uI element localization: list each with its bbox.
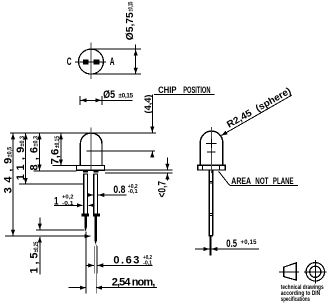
AREA NOT PLANE leader <box>219 171 230 185</box>
side view lead bottom cap <box>209 235 214 237</box>
front view vertical centerline <box>90 128 92 171</box>
svg-text:Ø5,75: Ø5,75 <box>124 12 136 40</box>
svg-text:±0,25: ±0,25 <box>33 241 40 252</box>
top view circle (lens top view) <box>79 49 104 74</box>
dim 1,5 lower arrow <box>39 237 41 274</box>
svg-text:C: C <box>67 56 72 68</box>
left lead crimp bulge <box>82 213 90 216</box>
dim 7,6 bottom extension line <box>52 165 76 167</box>
dim 34,9 dimension line <box>12 134 14 141</box>
lead cross-section square right (anode) <box>94 59 100 64</box>
extension line from left lead tip <box>85 232 87 294</box>
projection symbol crosshair <box>304 271 327 273</box>
top view vertical centerline <box>90 43 92 79</box>
projection symbol cone <box>284 263 297 280</box>
extension line from right lead center <box>95 245 97 294</box>
svg-text:±0,15: ±0,15 <box>128 1 134 11</box>
dim 0,8 leader and dimension line <box>88 194 93 196</box>
svg-text:R2,45: R2,45 <box>225 107 255 130</box>
svg-text:specifications: specifications <box>281 296 310 303</box>
svg-text:1,5: 1,5 <box>29 253 41 274</box>
svg-text:-0,1: -0,1 <box>143 261 153 267</box>
polarity minus mark <box>207 151 215 153</box>
dim 0,5 dimension line with arrows <box>195 248 209 250</box>
svg-text:Ø5: Ø5 <box>103 89 115 101</box>
dim Ø5 extension line right <box>101 96 103 105</box>
R2,45 label <box>225 86 293 131</box>
dim Ø5 dimension line with arrows <box>81 99 102 101</box>
svg-text:-0,1: -0,1 <box>62 201 74 207</box>
left lead narrow section with pointed tip <box>84 217 86 228</box>
lead cross-section square left (cathode) <box>83 59 88 64</box>
dim <0,7 extension lines <box>105 169 172 171</box>
right lead narrow section with pointed tip <box>94 217 96 241</box>
extension lines from right lead edges <box>93 246 95 274</box>
svg-text:POSITION: POSITION <box>183 85 210 95</box>
svg-text:±0,15: ±0,15 <box>54 136 61 148</box>
svg-text:-0,1: -0,1 <box>128 189 139 195</box>
side view flange <box>198 165 226 170</box>
svg-text:(sphere): (sphere) <box>254 86 293 115</box>
svg-text:±0,5: ±0,5 <box>7 147 14 158</box>
dim 0.63 dimension line <box>86 264 94 266</box>
right lead outline (anode) <box>93 170 98 172</box>
svg-text:PLANE: PLANE <box>273 176 294 186</box>
svg-text:2,54 nom,: 2,54 nom, <box>112 277 156 289</box>
svg-text:±0,3: ±0,3 <box>33 136 40 147</box>
dim 8,6 bottom extension line <box>34 170 77 172</box>
anode tip reference line B <box>5 235 91 237</box>
dim 8,6 dimension line <box>39 134 41 141</box>
side view lead tick marks <box>208 180 213 182</box>
dim Ø5,75 extension line top <box>91 48 141 50</box>
R2,45 leader arrow <box>222 95 293 135</box>
dim 7,6 dimension line <box>60 134 62 141</box>
svg-text:(4,4): (4,4) <box>143 95 154 114</box>
dim 11,9 dimension line <box>25 134 27 141</box>
dim 11,9 bottom extension line <box>19 183 83 185</box>
side view vertical centerline <box>211 127 213 173</box>
svg-text:0.8: 0.8 <box>113 184 125 196</box>
svg-text:±0,15: ±0,15 <box>118 92 133 99</box>
svg-text:7,6: 7,6 <box>50 149 62 165</box>
svg-text:0.5: 0.5 <box>226 238 237 250</box>
dim Ø5,75 extension line bottom <box>91 73 141 75</box>
dim <0,7 arrows <box>166 158 168 170</box>
dim 1 leader and dimension line <box>54 204 78 206</box>
svg-text:±0,3: ±0,3 <box>19 136 26 147</box>
polarity plus mark <box>206 142 217 144</box>
side view lead outline <box>208 170 210 236</box>
dim Ø5,75 dimension line with arrows <box>135 50 137 74</box>
svg-text:0.63: 0.63 <box>113 255 139 267</box>
right lead crimp bulge <box>93 213 100 216</box>
svg-text:1: 1 <box>54 196 59 208</box>
svg-text:<0,7: <0,7 <box>157 181 169 198</box>
projection symbol cone centerline <box>279 271 299 273</box>
svg-text:A: A <box>110 56 115 68</box>
front view flange <box>77 165 105 170</box>
left lead outline (cathode) <box>83 170 88 172</box>
dim 1,5 upper arrow <box>39 217 41 229</box>
cathode tip reference line A <box>36 229 85 231</box>
svg-text:NOT: NOT <box>255 176 269 186</box>
top view horizontal axis line <box>75 61 106 63</box>
front view top reference line <box>10 132 156 134</box>
dim Ø5 leader shelf <box>102 99 133 101</box>
svg-text:CHIP: CHIP <box>158 85 177 95</box>
AREA NOT PLANE underline <box>230 185 298 187</box>
side view LED body outline <box>200 131 222 165</box>
svg-text:+0,15: +0,15 <box>241 240 258 246</box>
svg-text:AREA: AREA <box>231 176 251 186</box>
svg-text:8,6: 8,6 <box>28 147 40 171</box>
svg-text:+0,2: +0,2 <box>62 195 74 201</box>
dim Ø5 extension line left <box>79 96 81 105</box>
chip position line inside dome <box>87 150 156 152</box>
dim (4,4) vertical line with arrows <box>151 95 153 133</box>
dim 2,54 dimension line <box>68 287 85 289</box>
CHIP POSITION underline <box>154 94 214 96</box>
side view lead narrow tip <box>209 236 211 256</box>
front view LED body outline (dome + cylinder) <box>80 133 102 165</box>
side view flange inner lines <box>201 165 203 170</box>
projection symbol circles <box>306 263 324 281</box>
